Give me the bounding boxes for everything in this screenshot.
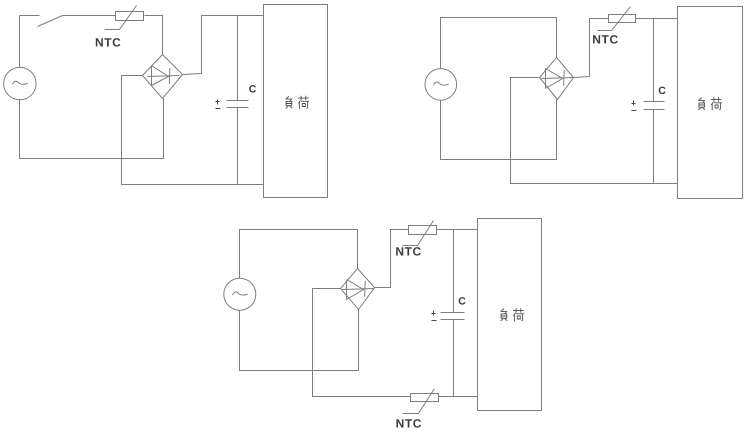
load label 负荷 (circuit 3): [501, 309, 524, 321]
bridge diode triangle (circuit 2): [546, 69, 563, 89]
wire: capacitor top lead (circuit 3): [453, 230, 455, 313]
NTC thermistor diagonal stroke (circuit 2): [598, 7, 631, 31]
polarity mark plus/minus (circuit 2): [632, 101, 637, 111]
wire: NTC to load (circuit 2): [636, 18, 678, 20]
svg-text:NTC: NTC: [95, 36, 121, 50]
wire: bridge right (+) up to DC rail and to load (circuit 1): [183, 16, 264, 75]
wire: capacitor bottom lead (circuit 2): [653, 110, 655, 184]
polarity mark plus/minus (circuit 1): [216, 100, 221, 109]
NTC thermistor body (circuit 2): [609, 15, 636, 23]
bridge axis line (circuit 1): [148, 76, 180, 77]
polarity mark plus/minus (circuit 3): [432, 311, 437, 321]
NTC thermistor diagonal stroke bottom (circuit 3): [403, 389, 435, 414]
load label 负荷 (circuit 1): [286, 96, 309, 108]
svg-text:NTC: NTC: [592, 33, 618, 47]
NTC thermistor diagonal stroke top (circuit 3): [403, 221, 434, 246]
wire: top rail to switch (circuit 1): [20, 15, 40, 17]
bridge rectifier diamond (circuit 1): [143, 55, 183, 99]
wire: AC bottom to bridge bottom (circuit 1): [20, 99, 164, 159]
wire: left rail from top corner down to AC source (circuit 1): [19, 16, 21, 68]
load box (circuit 3): [478, 219, 542, 411]
wire: bridge right (+) up to NTC (circuit 2): [574, 19, 609, 78]
svg-text:NTC: NTC: [395, 245, 421, 259]
svg-text:C: C: [458, 296, 466, 308]
wire: bottom NTC to load (circuit 3): [439, 396, 478, 398]
capacitor C plates (circuit 3): [441, 313, 465, 320]
capacitor C plates (circuit 2): [644, 102, 665, 110]
wire: AC bottom to bridge bottom (circuit 3): [240, 310, 359, 371]
NTC thermistor diagonal stroke (circuit 1): [105, 6, 137, 30]
wire: bridge right (+) up to NTC (circuit 3): [375, 230, 409, 288]
wire: AC top up and right to bridge top (circuit 3): [240, 230, 358, 279]
bridge axis line (circuit 2): [542, 78, 574, 79]
wire: bridge left (-) down and right to load (circuit 2): [511, 78, 678, 184]
wire: NTC to load (circuit 3): [437, 229, 478, 231]
svg-text:C: C: [249, 84, 257, 96]
wire: capacitor top lead (circuit 1): [237, 16, 239, 101]
wire: capacitor top lead (circuit 2): [653, 19, 655, 102]
svg-text:NTC: NTC: [396, 416, 422, 430]
load label 负荷 (circuit 2): [699, 98, 722, 110]
load box (circuit 2): [678, 7, 743, 199]
load box (circuit 1): [264, 5, 328, 198]
bridge diode triangle (circuit 1): [152, 66, 169, 86]
bridge diode cathode bar (circuit 1): [168, 68, 171, 84]
AC source G2 (circuit 2): [425, 69, 457, 101]
capacitor C plates (circuit 1): [227, 101, 249, 108]
NTC thermistor body top (circuit 3): [409, 226, 437, 235]
bridge axis line (circuit 3): [343, 289, 375, 290]
svg-text:C: C: [658, 85, 666, 97]
wire: AC bottom to bridge bottom (circuit 2): [441, 100, 557, 160]
bridge rectifier diamond (circuit 3): [341, 269, 375, 310]
AC source G3 (circuit 3): [224, 278, 256, 310]
wire: capacitor bottom lead (circuit 3): [453, 320, 455, 397]
bridge diode cathode bar (circuit 2): [563, 70, 566, 86]
wire: AC top up and right to bridge top (circuit 2): [441, 18, 557, 69]
switch S (circuit 1): [38, 16, 63, 27]
bridge diode cathode bar (circuit 3): [364, 281, 367, 297]
bridge diode triangle (circuit 3): [347, 280, 364, 300]
wire: NTC to bridge top (circuit 1): [145, 16, 163, 55]
bridge rectifier diamond (circuit 2): [540, 58, 574, 100]
NTC thermistor body bottom (circuit 3): [411, 394, 439, 402]
wire: bridge left (-) down to bottom NTC (circuit 3): [313, 289, 411, 397]
AC source G1 (circuit 1): [4, 67, 36, 99]
wire: switch to NTC (circuit 1): [63, 15, 116, 17]
NTC thermistor body (circuit 1): [116, 12, 144, 21]
wire: capacitor bottom lead (circuit 1): [237, 108, 239, 185]
wire: bridge left (-) down and right to load (circuit 1): [122, 76, 264, 185]
